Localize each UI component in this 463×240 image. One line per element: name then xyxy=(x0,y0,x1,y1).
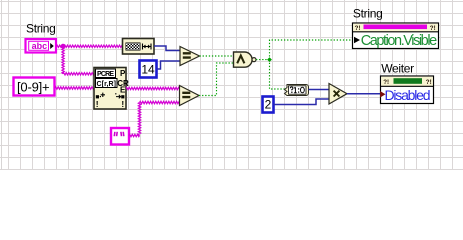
grid background xyxy=(0,0,463,170)
wire: ?1:0 to Multiply xyxy=(309,89,330,91)
property node Weiter: Disabled xyxy=(380,76,434,104)
numeric constant 14 xyxy=(140,61,157,78)
svg-text:14: 14 xyxy=(141,63,155,77)
wire: "" to Equal2 lower input xyxy=(129,134,140,136)
wire: And output to junction, up to Caption.Visible, down to ?1:0 xyxy=(256,59,270,61)
svg-text:P: P xyxy=(120,69,126,78)
property node String: Caption.Visible xyxy=(353,23,439,49)
junction on string wire xyxy=(61,44,66,49)
wire: Equal2 to And lower input xyxy=(199,63,233,96)
svg-text:!: ! xyxy=(96,99,99,109)
wire: Equal1 to And (boolean dashed) xyxy=(200,55,234,57)
svg-text:?!: ?! xyxy=(426,79,432,86)
svg-text:C[r,R]: C[r,R] xyxy=(97,81,117,88)
wire: String Length to Equal1 (blue) xyxy=(154,46,180,51)
svg-text:?!: ?! xyxy=(383,79,389,86)
Multiply node xyxy=(329,84,347,105)
wire: 2 to Multiply lower input xyxy=(274,99,330,105)
string control terminal String (abc) xyxy=(26,39,57,53)
Equal? node 1 xyxy=(180,47,200,66)
wire: [0-9]+ to PCRE regex input xyxy=(55,87,94,89)
svg-text:PCRE: PCRE xyxy=(97,71,114,78)
And node xyxy=(234,52,257,67)
String Length node xyxy=(123,39,155,55)
string constant [0-9]+ xyxy=(14,78,55,96)
wire: junction down to PCRE string input xyxy=(62,46,64,74)
svg-text:Weiter: Weiter xyxy=(381,62,414,76)
svg-text:?!: ?! xyxy=(430,25,436,32)
svg-text:Caption.Visible: Caption.Visible xyxy=(361,33,438,49)
wire: PCRE whole match out to Equal2 xyxy=(126,87,180,89)
wire: 14 to Equal1 lower input xyxy=(157,61,180,69)
svg-text:String: String xyxy=(353,6,383,20)
junction on boolean wire xyxy=(267,57,272,62)
svg-text:Disabled: Disabled xyxy=(385,87,431,103)
Boolean To 0-1 node ?1:0 xyxy=(285,85,309,96)
svg-text:String: String xyxy=(26,21,56,35)
numeric constant 2 xyxy=(263,97,274,113)
empty string constant "" xyxy=(111,128,129,145)
svg-text:E: E xyxy=(120,86,126,95)
svg-text:abc: abc xyxy=(32,41,48,51)
svg-text:!: ! xyxy=(121,99,124,109)
svg-text:2: 2 xyxy=(265,98,272,112)
svg-text:?!: ?! xyxy=(355,25,361,32)
wire: Multiply to Disabled property xyxy=(347,93,380,95)
Equal? node 2 xyxy=(180,86,200,106)
svg-text:[0-9]+: [0-9]+ xyxy=(17,79,49,94)
wire: String control to String Length (pink zigzag) xyxy=(57,45,123,47)
Match Regular Expression node (PCRE) xyxy=(94,68,129,110)
